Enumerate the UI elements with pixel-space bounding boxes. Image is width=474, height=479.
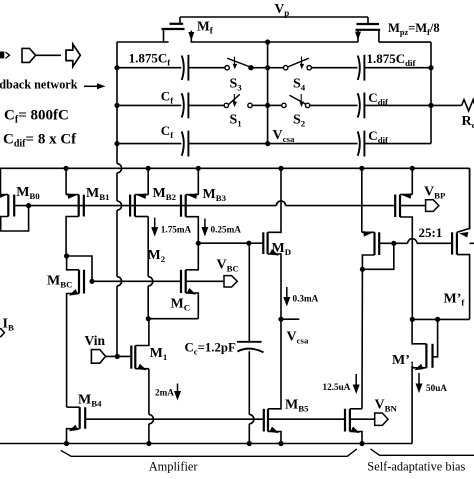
- legend partial input symbol (cut at left edge): [0, 52, 10, 59]
- transistor MB4: [67, 407, 86, 443]
- label MB4: [78, 393, 102, 409]
- label M1: [150, 346, 168, 362]
- legend text Cf value: [4, 108, 69, 126]
- transistor M1: [131, 319, 149, 371]
- svg-text:25:1: 25:1: [419, 225, 443, 240]
- label S4: [293, 77, 306, 93]
- node output rail row1: [428, 65, 433, 70]
- node MBC gate tie: [89, 279, 94, 284]
- label MBC: [47, 274, 72, 290]
- label S3: [230, 77, 243, 93]
- node Vcsa column row3: [265, 141, 270, 146]
- wire VBP tap: [400, 205, 426, 207]
- transistor MBC: [67, 256, 92, 407]
- port Vin: [91, 350, 105, 364]
- wire 25:1 gate line: [379, 239, 452, 244]
- label Cdif row3: [368, 128, 389, 145]
- transistor Mf: [162, 17, 195, 42]
- port VBN: [375, 413, 388, 425]
- label M2 net: [148, 248, 166, 264]
- label Amplifier: [149, 459, 199, 473]
- node VDD-M25: [359, 166, 364, 171]
- wire gate line MB5 to VBN transistor: [268, 418, 345, 420]
- label Mpz=Mf/8: [388, 21, 440, 37]
- wire Cc top: [248, 243, 250, 342]
- node junction Vcsa column top: [265, 39, 270, 44]
- switch S2: [268, 94, 358, 108]
- svg-text:Mpz=Mf/8: Mpz=Mf/8: [388, 21, 440, 37]
- node input rail row2: [114, 103, 119, 108]
- svg-text:Amplifier: Amplifier: [149, 459, 199, 473]
- transistor MB3: [181, 168, 198, 243]
- switch S4: [268, 56, 358, 70]
- node M1-MB2 drain junction: [146, 316, 151, 321]
- transistor MD: [263, 168, 281, 319]
- node Vcsa column row2: [265, 103, 270, 108]
- capacitor 1.875Cf: [117, 55, 225, 81]
- legend wire: [36, 54, 61, 56]
- node MB1-MBC: [64, 253, 69, 258]
- transistor MB5: [264, 319, 281, 443]
- label MB0: [16, 185, 40, 201]
- label MB2: [153, 186, 177, 202]
- label Vcsa output: [287, 330, 309, 346]
- transistor M25 (25:1 diode PMOS): [362, 168, 394, 269]
- net Vp label: [275, 1, 290, 18]
- wire Vin to M1 gate: [106, 355, 132, 357]
- label 25:1: [419, 225, 443, 240]
- wire VBN tap: [350, 418, 375, 420]
- transistor MB2: [130, 168, 148, 216]
- svg-text:Cc=1.2pF: Cc=1.2pF: [185, 341, 236, 357]
- brace Self-adaptative bias: [371, 449, 474, 455]
- node Vcsa column row1: [265, 65, 270, 70]
- wire VDD rail right drop: [469, 168, 471, 229]
- transistor Mpf (M'f): [452, 168, 470, 319]
- switch S3: [225, 57, 268, 70]
- hop gate line over MD drain: [276, 201, 285, 206]
- wire Vcsa middle column: [267, 42, 269, 144]
- node first-stage output (MB3/MC drains): [196, 241, 201, 246]
- transistor M1p (M'1): [412, 319, 438, 443]
- legend hollow block arrow: [66, 44, 80, 66]
- capacitor Cf row2: [117, 93, 224, 119]
- svg-text:Self-adaptative bias: Self-adaptative bias: [367, 459, 465, 473]
- current annotation 2mA: [155, 384, 181, 401]
- wire ground rail: [0, 443, 412, 445]
- wire PMOS gate bias line: [14, 201, 395, 206]
- legend text: feedback network: [0, 78, 78, 92]
- node input tap: [115, 354, 120, 359]
- wire cap-top right segment: [379, 41, 431, 43]
- capacitor Cc: [237, 342, 264, 353]
- label M1p: [392, 353, 414, 369]
- wire M1 drain link: [148, 318, 198, 320]
- node link-MBP: [410, 317, 415, 322]
- current annotation 0.25mA: [201, 219, 241, 237]
- node input rail row3: [114, 141, 119, 146]
- transistor Mpz: [355, 17, 380, 42]
- node link-M1p gate: [435, 317, 440, 322]
- svg-text:eedback network: eedback network: [0, 78, 78, 92]
- label 1.875Cf: [129, 51, 172, 68]
- svg-text:Vin: Vin: [85, 333, 106, 348]
- wire cap-top left segment: [117, 41, 169, 43]
- svg-text:50uA: 50uA: [426, 383, 447, 393]
- current annotation 50uA: [416, 373, 448, 393]
- wire M2 node (MB2 drain to M1 drain): [148, 217, 153, 319]
- wire to resistor Rd: [431, 104, 462, 106]
- label VBP: [424, 185, 446, 201]
- wire M1 source: [149, 369, 154, 444]
- label MC: [171, 297, 191, 313]
- node VDD-MBP: [410, 166, 415, 171]
- capacitor 1.875Cdif: [358, 55, 431, 81]
- svg-text:Cf= 800fC: Cf= 800fC: [4, 108, 69, 126]
- switch S1: [224, 94, 268, 108]
- node VDD-MB2: [146, 166, 151, 171]
- svg-text:0.25mA: 0.25mA: [211, 225, 242, 235]
- svg-text:1.875Cf: 1.875Cf: [129, 51, 172, 68]
- current annotation 1.75mA: [151, 218, 191, 237]
- wire right output rail: [430, 42, 432, 144]
- label Mf: [197, 19, 214, 36]
- node output rail row2: [428, 103, 433, 108]
- svg-text:2mA: 2mA: [155, 388, 174, 398]
- transistor MC: [181, 243, 198, 319]
- node M25 drain-gate tie: [360, 267, 365, 272]
- wire first-stage output to MD gate: [198, 242, 263, 244]
- node GND-MB5: [278, 441, 283, 446]
- transistor MBP (VBP mirror): [395, 168, 412, 319]
- wire VBC tap: [186, 280, 224, 282]
- wire Vp rail: [180, 16, 368, 18]
- wire cascode gate line: [92, 280, 181, 282]
- wire M25 drain down: [361, 269, 363, 409]
- label Mpf: [444, 292, 466, 308]
- label Self-adaptative bias: [367, 459, 465, 473]
- label Rd: [462, 114, 474, 130]
- node GND-Cc: [247, 441, 252, 446]
- label VBN: [375, 398, 398, 414]
- wire Vcsa stub: [281, 318, 299, 320]
- svg-text:12.5uA: 12.5uA: [323, 382, 351, 392]
- capacitor Cdif row2: [358, 93, 431, 119]
- svg-text:0.3mA: 0.3mA: [293, 294, 319, 304]
- node MB0 gate-drain tie: [26, 203, 31, 208]
- node Vcsa output: [278, 317, 283, 322]
- node GND-MB4: [64, 441, 69, 446]
- resistor Rd: [462, 100, 474, 111]
- label Cdif row2: [368, 90, 389, 107]
- wire Cc bottom: [249, 351, 254, 443]
- transistor MB1: [66, 168, 84, 256]
- wire left input rail: [117, 42, 122, 356]
- label S2: [293, 113, 306, 129]
- capacitor Cdif row3: [358, 131, 431, 157]
- transistor MB6 (VBN mirror): [345, 409, 362, 444]
- label MB3: [203, 187, 227, 203]
- wire VDD rail: [0, 167, 470, 169]
- wire gate stub right edge: [470, 242, 474, 244]
- svg-text:1.75mA: 1.75mA: [161, 225, 192, 235]
- node GND-M1: [146, 441, 151, 446]
- node VDD-MD: [278, 166, 283, 171]
- wire cap-top middle segment (Vcsa): [191, 41, 359, 43]
- label MB1: [86, 186, 110, 202]
- transistor MB0: [0, 168, 29, 231]
- port IB (cut at left edge): [0, 329, 4, 337]
- node VDD-MB1: [63, 166, 68, 171]
- label VBC: [217, 258, 239, 274]
- current annotation 12.5uA: [323, 374, 360, 394]
- current annotation 0.3mA: [283, 287, 318, 307]
- capacitor Cf row3: [117, 131, 358, 157]
- label Vin: [85, 333, 106, 348]
- legend text Cdif value: [3, 132, 77, 150]
- label Cf row2: [161, 89, 174, 106]
- legend buffer/port symbol: [22, 48, 36, 62]
- label MB5: [285, 398, 309, 414]
- node VDD-MB3: [196, 166, 201, 171]
- label S1: [230, 113, 242, 129]
- port VBC: [224, 276, 237, 287]
- label Cc=1.2pF: [185, 341, 236, 357]
- label MD: [272, 241, 292, 257]
- label Vcsa row3: [273, 128, 295, 144]
- port VBP: [426, 200, 439, 212]
- label IB: [3, 317, 14, 333]
- wire NMOS gate bias line: [85, 418, 264, 420]
- wire bias link (MBP source to M'f source): [412, 318, 469, 320]
- node Cc tap: [246, 241, 251, 246]
- legend arrow to schematic: [84, 83, 106, 89]
- node M25 gate tie: [391, 241, 396, 246]
- node GND-MB6: [359, 441, 364, 446]
- label Cf row3: [161, 123, 174, 140]
- brace Amplifier: [61, 449, 357, 456]
- label 1.875Cdif: [367, 51, 417, 68]
- node input rail row1: [114, 65, 119, 70]
